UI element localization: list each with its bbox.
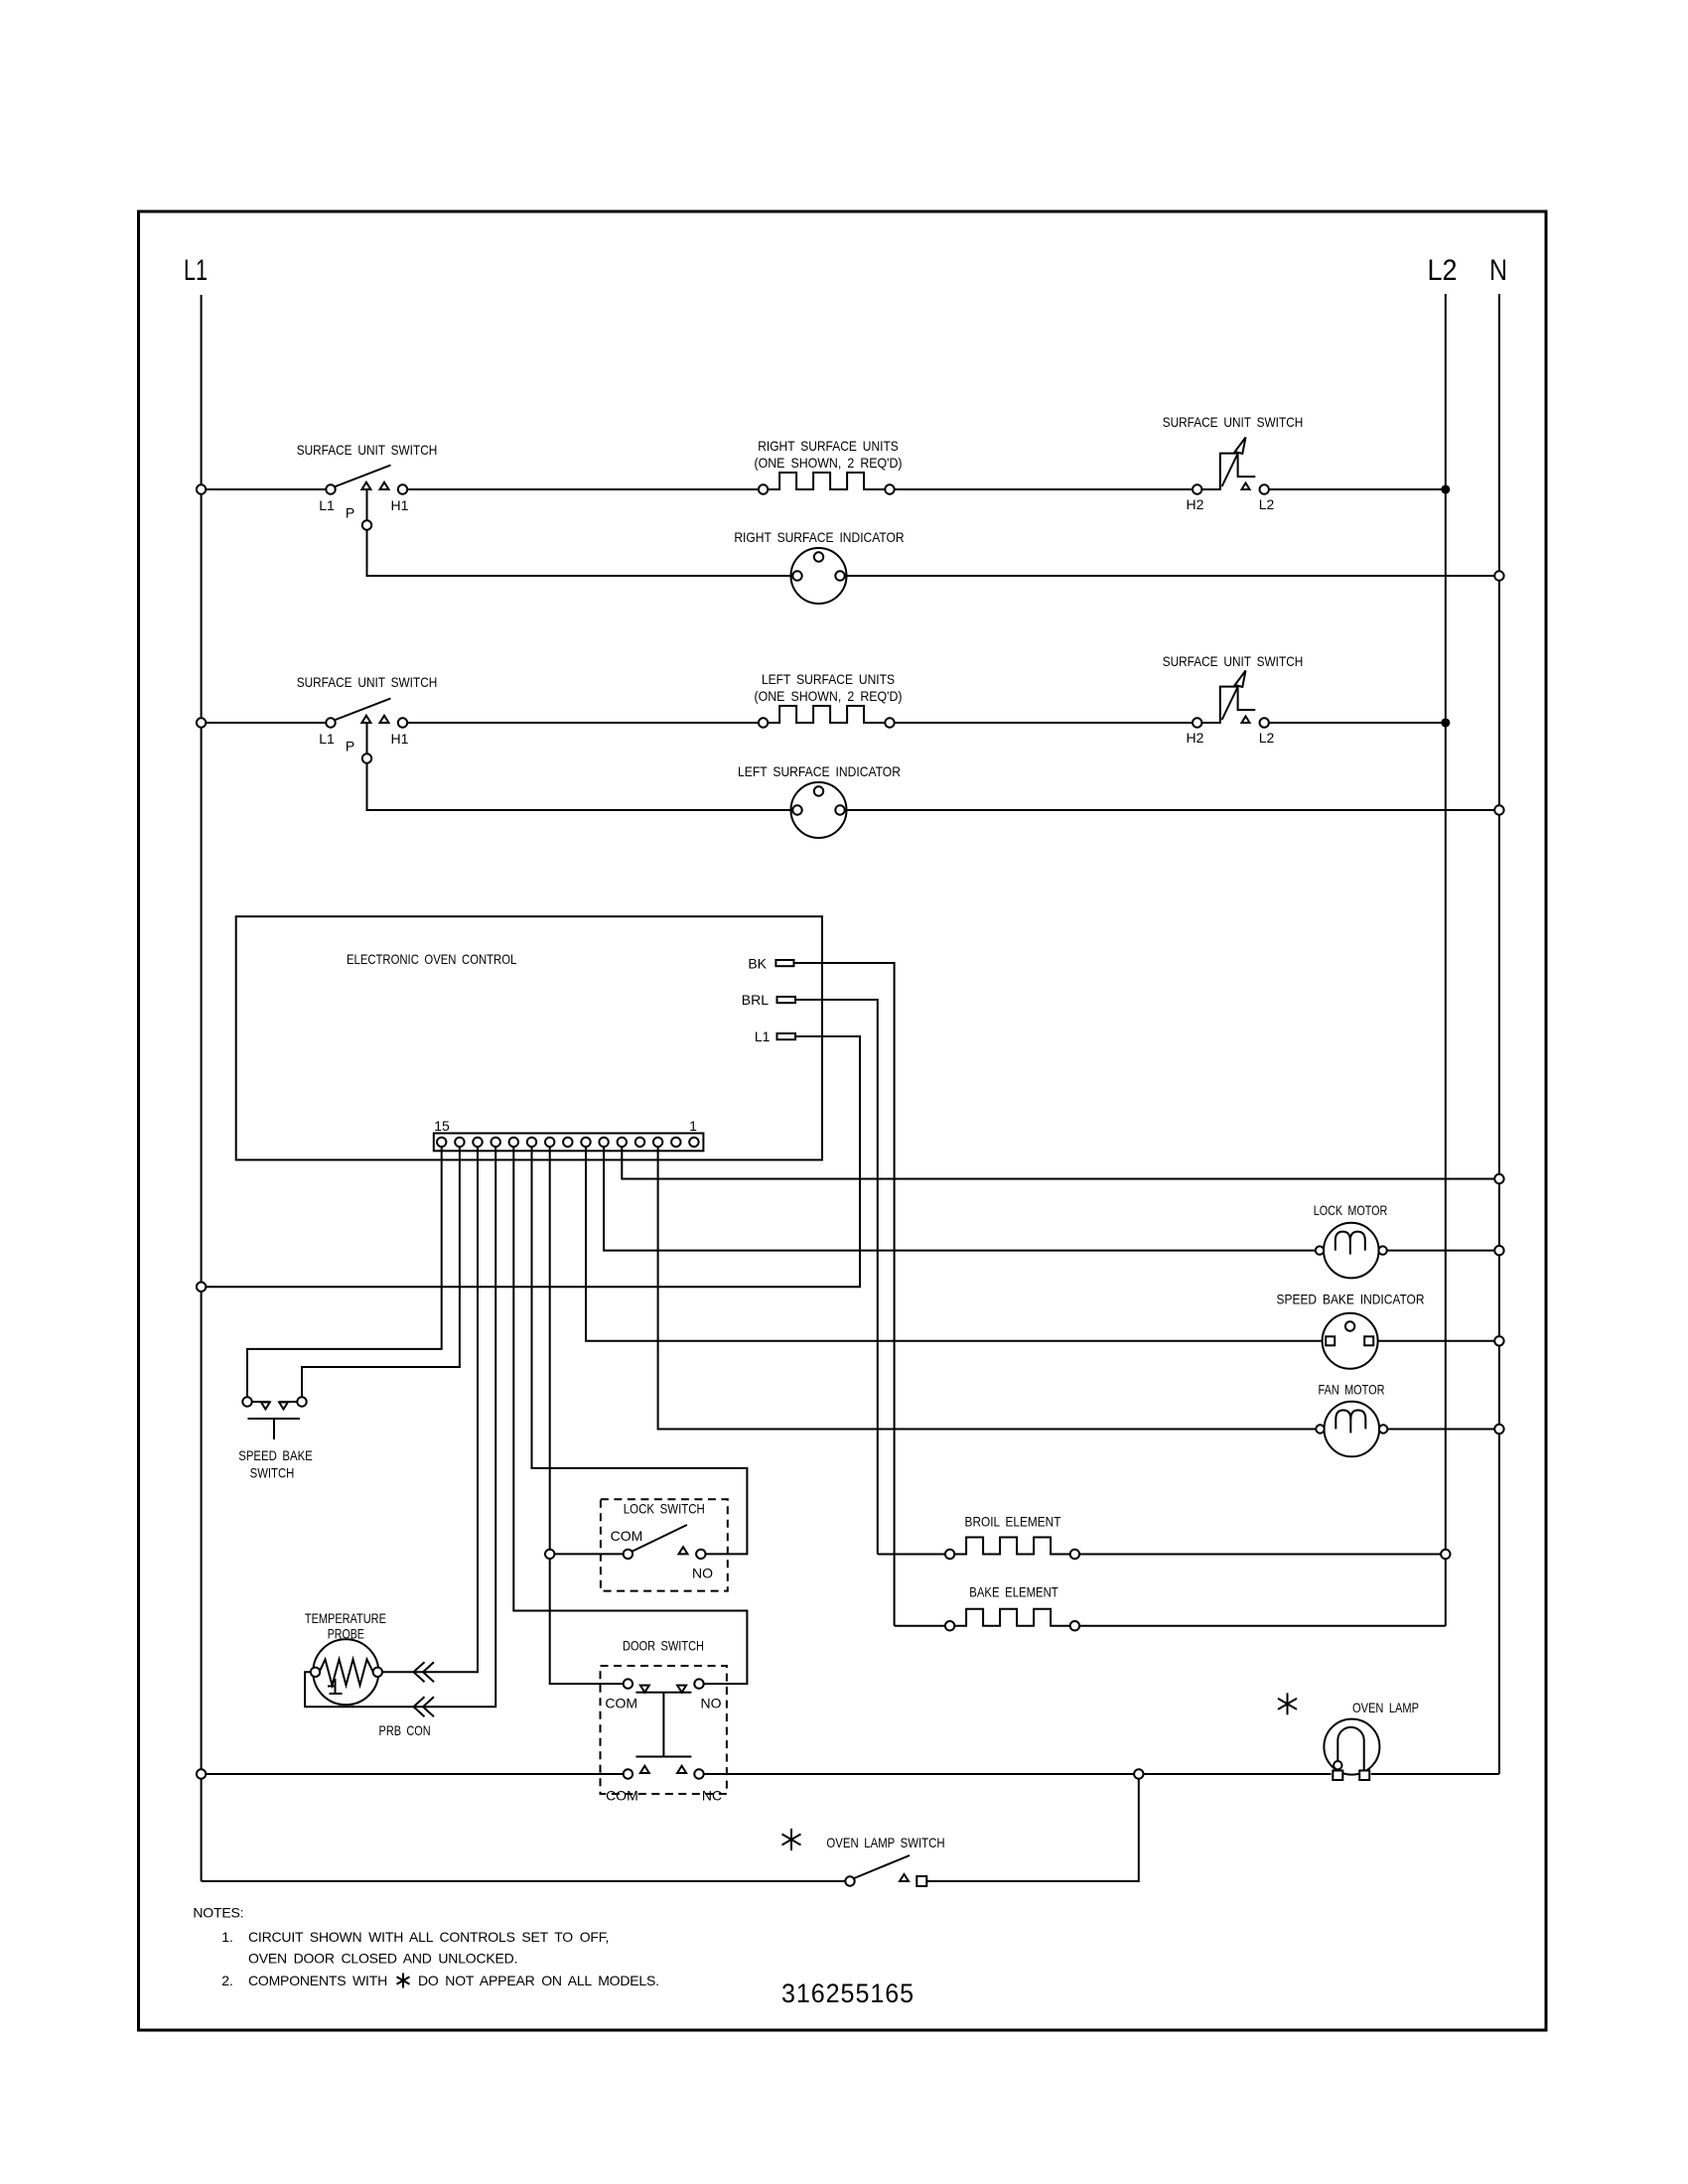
connector strip J1 pins 15-1 [434, 1134, 704, 1152]
net L1 bus [201, 295, 203, 1881]
svg-text:1: 1 [689, 1118, 697, 1134]
bake element R2 [895, 1625, 945, 1627]
svg-text:COM: COM [611, 1528, 643, 1544]
asterisk in note 2 [397, 1974, 410, 1988]
wire pin6 to lock motor [604, 1147, 1315, 1251]
svg-text:DO NOT APPEAR ON ALL MODELS.: DO NOT APPEAR ON ALL MODELS. [418, 1973, 659, 1988]
svg-text:OVEN DOOR CLOSED AND UNLOCKED.: OVEN DOOR CLOSED AND UNLOCKED. [248, 1951, 517, 1967]
svg-text:DOOR SWITCH: DOOR SWITCH [623, 1638, 704, 1654]
wire row2 element to switch SW4 [895, 722, 1193, 724]
wire oven lamp to N corner [1371, 1773, 1499, 1775]
resistor left surface units [759, 718, 768, 727]
temperature probe RT1 [313, 1639, 378, 1705]
svg-text:H2: H2 [1187, 496, 1204, 512]
wire BK to bake element [794, 963, 895, 1626]
wire lamp row L1 to door COM [206, 1773, 623, 1775]
svg-text:NO: NO [692, 1566, 713, 1581]
node P2 terminal [362, 753, 371, 762]
svg-text:FAN MOTOR: FAN MOTOR [1319, 1382, 1385, 1398]
surface unit switch SW4 (right, thermal) [1193, 718, 1201, 727]
wire row2 switch to L2 bus [1269, 722, 1446, 724]
svg-text:OVEN LAMP: OVEN LAMP [1352, 1700, 1419, 1715]
indicator lamp right surface [791, 548, 847, 604]
connector PRB CON lower chevrons [414, 1697, 435, 1716]
node indicator2-N terminal [1494, 805, 1503, 814]
wire pin10 to lock switch NO [532, 1147, 748, 1554]
svg-text:H1: H1 [391, 497, 409, 513]
svg-text:H1: H1 [391, 731, 409, 747]
wire row1 P branch [367, 489, 791, 576]
indicator lamp left surface [791, 782, 847, 838]
node row1-L2 junction [1442, 485, 1450, 493]
node L1-row1 junction [197, 484, 206, 493]
svg-text:LEFT SURFACE INDICATOR: LEFT SURFACE INDICATOR [738, 763, 901, 779]
surface unit switch SW1 (right units) [326, 484, 335, 493]
wire junction to oven lamp [1144, 1773, 1332, 1775]
svg-text:SURFACE UNIT SWITCH: SURFACE UNIT SWITCH [1163, 653, 1304, 669]
svg-text:LOCK SWITCH: LOCK SWITCH [624, 1500, 705, 1516]
svg-text:SPEED BAKE INDICATOR: SPEED BAKE INDICATOR [1277, 1292, 1425, 1307]
wire lamp switch to lamp row [926, 1779, 1139, 1881]
svg-text:TEMPERATURE: TEMPERATURE [305, 1610, 386, 1626]
svg-text:L1: L1 [755, 1028, 771, 1044]
oven lamp switch S4 [845, 1876, 854, 1885]
svg-text:SURFACE UNIT SWITCH: SURFACE UNIT SWITCH [1163, 414, 1304, 430]
wire fan motor to N [1388, 1429, 1495, 1431]
svg-text:SURFACE UNIT SWITCH: SURFACE UNIT SWITCH [297, 674, 438, 690]
wire lock junction to COM [554, 1553, 623, 1555]
wire pin3 to fan motor [658, 1147, 1320, 1429]
node lamprow junction [1134, 1769, 1143, 1778]
connector PRB CON upper chevrons [414, 1662, 435, 1682]
speed bake switch S1 [242, 1397, 251, 1406]
node fanmotor-N terminal [1494, 1425, 1503, 1433]
node P1 terminal [362, 520, 371, 529]
wire row1 switch to L2 bus [1269, 488, 1446, 490]
node L1-lamprow junction [197, 1769, 206, 1778]
door switch S3 [601, 1666, 727, 1794]
svg-text:(ONE SHOWN, 2 REQ'D): (ONE SHOWN, 2 REQ'D) [755, 455, 903, 471]
wire pin7 to speed bake indicator [586, 1147, 1322, 1341]
node lockmotor-N terminal [1494, 1246, 1503, 1255]
svg-text:RIGHT SURFACE INDICATOR: RIGHT SURFACE INDICATOR [734, 529, 904, 545]
net N bus [1498, 294, 1500, 1774]
svg-text:ELECTRONIC OVEN CONTROL: ELECTRONIC OVEN CONTROL [347, 951, 516, 967]
svg-text:PROBE: PROBE [328, 1626, 364, 1642]
svg-text:N: N [1489, 254, 1507, 287]
wire indicator2 to N [847, 809, 1495, 811]
svg-text:SPEED BAKE: SPEED BAKE [238, 1447, 313, 1463]
wire pin11 to door switch NO [513, 1147, 747, 1684]
svg-text:SURFACE UNIT SWITCH: SURFACE UNIT SWITCH [297, 442, 438, 458]
net L2 bus [1445, 294, 1447, 1626]
svg-text:L1: L1 [319, 497, 335, 513]
wire pin9 to door switch COM [550, 1559, 624, 1684]
wire broil to L2 bus [1079, 1554, 1441, 1556]
wire pin13 to probe [382, 1147, 478, 1672]
wire pin12 to probe [305, 1147, 495, 1706]
wire lock motor to N [1387, 1250, 1494, 1252]
wire pin15 to speed bake switch [247, 1147, 442, 1397]
wire pin9 to lock switch COM [549, 1147, 551, 1550]
svg-text:P: P [346, 505, 354, 521]
svg-text:NOTES:: NOTES: [193, 1905, 243, 1921]
svg-text:OVEN LAMP SWITCH: OVEN LAMP SWITCH [826, 1835, 944, 1850]
wire L1 bus to oven lamp switch [202, 1880, 846, 1882]
node pin9-lock junction [545, 1550, 554, 1559]
wire lamp row door NC to lamp [704, 1773, 1134, 1775]
surface unit switch SW3 (left units) [326, 718, 335, 727]
node indicator1-N terminal [1494, 571, 1503, 580]
svg-text:COMPONENTS WITH: COMPONENTS WITH [248, 1973, 387, 1988]
fan motor M2 [1325, 1402, 1380, 1457]
svg-text:316255165: 316255165 [781, 1979, 914, 2008]
svg-text:P: P [346, 739, 354, 754]
svg-text:L1: L1 [319, 731, 335, 747]
wire row2 P branch [367, 723, 791, 810]
wire BRL to broil element [795, 1000, 878, 1555]
wire row2 switch to element [407, 722, 759, 724]
svg-text:2.: 2. [221, 1973, 232, 1988]
svg-text:PRB CON: PRB CON [379, 1722, 431, 1738]
svg-text:BRL: BRL [742, 992, 769, 1008]
wire pin5 to N bus [622, 1147, 1494, 1178]
node row2-L2 junction [1442, 719, 1450, 727]
node L1feed-L1bus junction [197, 1283, 206, 1292]
wire L1 pin to L1 bus [206, 1036, 860, 1287]
asterisk for oven lamp switch [782, 1829, 801, 1850]
svg-text:L2: L2 [1428, 254, 1458, 287]
wire row1 element to switch SW2 [895, 488, 1193, 490]
asterisk for oven lamp [1278, 1693, 1297, 1714]
wire pin14 to speed bake switch [302, 1147, 460, 1397]
electronic oven control U1 [236, 916, 822, 1160]
svg-text:BAKE ELEMENT: BAKE ELEMENT [969, 1584, 1058, 1600]
svg-text:CIRCUIT SHOWN WITH ALL CONTROL: CIRCUIT SHOWN WITH ALL CONTROLS SET TO O… [248, 1929, 609, 1945]
svg-text:(ONE SHOWN, 2 REQ'D): (ONE SHOWN, 2 REQ'D) [755, 688, 903, 704]
speed bake indicator lamp DS1 [1323, 1313, 1378, 1369]
svg-text:L2: L2 [1259, 496, 1275, 512]
wire speed bake indicator to N [1378, 1340, 1495, 1342]
svg-text:LEFT SURFACE UNITS: LEFT SURFACE UNITS [762, 671, 895, 687]
svg-text:COM: COM [605, 1696, 637, 1711]
wire row1 switch to element [407, 488, 759, 490]
node broil-L2 junction [1441, 1550, 1450, 1559]
svg-text:H2: H2 [1187, 730, 1204, 746]
node sbindicator-N terminal [1494, 1336, 1503, 1345]
resistor right surface units [759, 484, 768, 493]
svg-text:SWITCH: SWITCH [250, 1465, 295, 1481]
broil element R1 [878, 1554, 945, 1556]
svg-text:BK: BK [748, 956, 767, 972]
svg-text:1.: 1. [221, 1929, 232, 1945]
svg-text:L1: L1 [184, 254, 208, 287]
lock motor M1 [1324, 1223, 1379, 1279]
border frame [139, 211, 1547, 2030]
wire bake to L2 bus [1079, 1625, 1446, 1627]
svg-text:15: 15 [434, 1118, 450, 1134]
node L1-row2 junction [197, 718, 206, 727]
wire row1 L1 to switch [206, 488, 326, 490]
oven lamp DS2 [1324, 1719, 1379, 1775]
svg-text:L2: L2 [1259, 730, 1275, 746]
svg-text:BROIL ELEMENT: BROIL ELEMENT [965, 1514, 1061, 1530]
wire row2 L1 to switch [206, 722, 326, 724]
lock switch S2 [601, 1499, 728, 1590]
svg-text:LOCK MOTOR: LOCK MOTOR [1314, 1202, 1388, 1218]
svg-text:RIGHT SURFACE UNITS: RIGHT SURFACE UNITS [758, 438, 899, 454]
svg-text:NC: NC [702, 1788, 722, 1804]
wire indicator1 to N [847, 575, 1495, 577]
svg-text:COM: COM [606, 1788, 638, 1804]
surface unit switch SW2 (right, thermal) [1193, 484, 1201, 493]
node pin5-N terminal [1494, 1174, 1503, 1183]
svg-text:NO: NO [701, 1696, 722, 1711]
